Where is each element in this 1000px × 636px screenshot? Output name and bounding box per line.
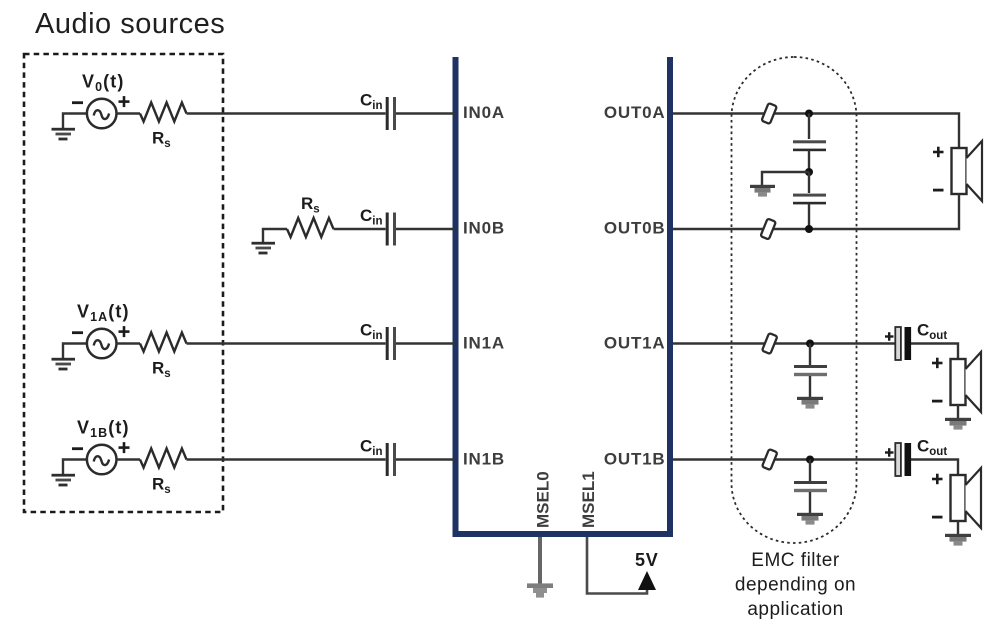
- AC source V0: [87, 99, 117, 129]
- svg-text:Audio sources: Audio sources: [35, 8, 225, 40]
- capacitor Cin (row 2): [386, 327, 396, 360]
- svg-text:application: application: [747, 599, 843, 620]
- wire MSEL1 to 5V: [587, 537, 647, 594]
- svg-text:EMC filter: EMC filter: [751, 550, 840, 571]
- wire speaker to ground (SPK2): [957, 521, 959, 534]
- capacitor Cin (row 3): [386, 443, 396, 476]
- wire MSEL0 to ground: [538, 537, 542, 584]
- ground (SPK2): [945, 534, 971, 546]
- plus sign (V0): [119, 96, 130, 107]
- wire IN0B ground corner: [263, 229, 287, 242]
- capacitor shunt (OUT1B): [794, 481, 827, 492]
- capacitor Cout (OUT1A): [895, 327, 911, 360]
- svg-text:OUT0A: OUT0A: [604, 103, 666, 122]
- AC source V1A: [87, 329, 117, 359]
- EMC filter dotted capsule: [732, 57, 857, 543]
- wire Cout to speaker (OUT1B): [911, 460, 958, 476]
- svg-text:OUT1A: OUT1A: [604, 334, 666, 353]
- capacitor shunt (OUT1A): [794, 365, 827, 376]
- resistor Rs (row 1): [287, 218, 334, 237]
- wire V1B ground to source: [63, 460, 87, 475]
- ground (V1B source): [52, 474, 76, 487]
- resistor Rs (row 3): [140, 449, 187, 468]
- capacitor C2 (mid-OUT0B): [793, 194, 826, 205]
- plus sign (V1B): [119, 442, 130, 453]
- svg-text:IN1B: IN1B: [463, 450, 505, 469]
- wire resistor to Cin (row 2): [187, 342, 386, 344]
- IC U1 outline (open top): [456, 57, 671, 534]
- node dot (OUT0A): [805, 110, 813, 118]
- plus sign (SPK0): [933, 147, 944, 158]
- wire Cin to IN0A pin: [396, 112, 455, 114]
- wire Cin to IN0B pin: [396, 228, 455, 230]
- capacitor Cout (OUT1B): [895, 443, 911, 476]
- wire cap to mid node: [808, 150, 810, 172]
- wire shunt cap to ground (OUT1A): [809, 376, 811, 397]
- capacitor Cin (row 1): [386, 213, 396, 246]
- ground (IN0B network): [252, 242, 276, 255]
- svg-text:MSEL0: MSEL0: [534, 471, 553, 528]
- wire OUT1B to Cout: [673, 458, 895, 460]
- wire shunt cap to ground (OUT1B): [809, 492, 811, 513]
- wire resistor to Cin (row 1): [334, 228, 386, 230]
- wire dot to cap (OUT0A): [808, 114, 810, 140]
- wire OUT1A to Cout: [673, 342, 895, 344]
- plus sign (Cout OUT1B): [885, 448, 894, 457]
- wire OUT0A to speaker corner: [673, 114, 959, 149]
- ground (OUT1A shunt): [797, 397, 823, 409]
- resistor Rs (row 2): [140, 333, 187, 352]
- minus sign (SPK2): [932, 516, 943, 519]
- speaker SPK0: [952, 141, 983, 201]
- wire mid node to ground: [762, 172, 809, 185]
- ground (MSEL0): [527, 583, 553, 597]
- wire speaker to ground (SPK1): [957, 405, 959, 418]
- 5V supply arrow: [638, 571, 656, 590]
- svg-text:5V: 5V: [635, 550, 659, 570]
- plus sign (Cout OUT1A): [885, 332, 894, 341]
- minus sign (SPK1): [932, 400, 943, 403]
- capacitor Cin (row 0): [386, 97, 396, 130]
- ferrite bead (OUT0A): [761, 103, 776, 124]
- minus sign (V1A): [72, 331, 83, 334]
- wire resistor to Cin (row 3): [187, 458, 386, 460]
- wire Cin to IN1A pin: [396, 342, 455, 344]
- svg-text:MSEL1: MSEL1: [579, 471, 598, 528]
- EMC filter caption: [735, 550, 856, 620]
- mid node dot: [805, 168, 813, 176]
- wire dot to shunt cap (OUT1B): [809, 460, 811, 482]
- capacitor C1 (OUT0A-mid): [793, 140, 826, 151]
- speaker SPK2: [951, 468, 982, 528]
- AC source V1B: [87, 445, 117, 475]
- ferrite bead (OUT1B): [762, 449, 777, 470]
- ground (SPK1): [945, 418, 971, 430]
- svg-text:OUT1B: OUT1B: [604, 450, 666, 469]
- plus sign (V1A): [119, 326, 130, 337]
- wire V0 ground to source: [63, 114, 87, 129]
- wire cap2 to OUT0B node: [808, 204, 810, 229]
- ground (OUT1B shunt): [797, 513, 823, 525]
- svg-text:depending on: depending on: [735, 575, 856, 596]
- wire Cin to IN1B pin: [396, 458, 455, 460]
- wire OUT0B to speaker corner: [673, 194, 959, 229]
- minus sign (SPK0): [933, 189, 944, 192]
- svg-text:V0(t): V0(t): [82, 72, 124, 95]
- speaker SPK1: [951, 352, 982, 412]
- minus sign (V0): [72, 101, 83, 104]
- node dot (OUT1A): [806, 340, 814, 348]
- plus sign (SPK1): [932, 358, 943, 369]
- ground (V1A source): [52, 358, 76, 371]
- svg-text:IN1A: IN1A: [463, 334, 505, 353]
- resistor Rs (row 0): [140, 103, 187, 122]
- ground (EMC mid): [750, 185, 775, 197]
- ground (V0 source): [52, 128, 76, 141]
- wire mid node to cap2: [808, 172, 810, 193]
- wire resistor to Cin (row 0): [187, 112, 386, 114]
- svg-text:IN0B: IN0B: [463, 219, 505, 238]
- dashed box: audio sources group: [24, 54, 223, 512]
- wire dot to shunt cap (OUT1A): [809, 344, 811, 366]
- node dot (OUT1B): [806, 456, 814, 464]
- wire source to resistor (row 2): [117, 342, 141, 344]
- plus sign (SPK2): [932, 474, 943, 485]
- ferrite bead (OUT0B): [760, 219, 775, 240]
- wire source to resistor (row 3): [117, 458, 141, 460]
- ferrite bead (OUT1A): [762, 333, 777, 354]
- wire source to resistor: [117, 112, 141, 114]
- node dot (OUT0B): [805, 225, 813, 233]
- wire V1A ground to source: [63, 344, 87, 359]
- svg-text:OUT0B: OUT0B: [604, 219, 666, 238]
- wire Cout to speaker (OUT1A): [911, 344, 958, 360]
- svg-text:IN0A: IN0A: [463, 103, 505, 122]
- minus sign (V1B): [72, 447, 83, 450]
